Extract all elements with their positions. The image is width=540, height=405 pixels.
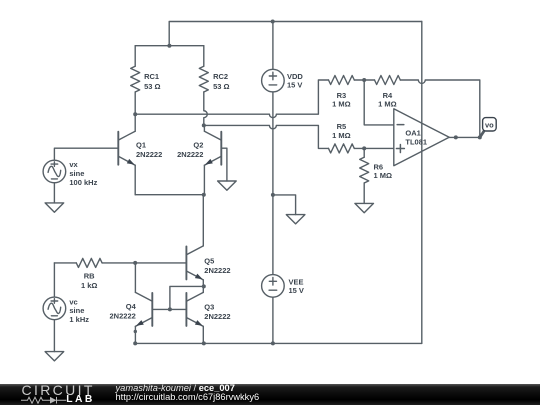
wire Q2-collector to R5 (node B) — [204, 125, 329, 148]
node output/feedback junction — [478, 135, 482, 139]
source VEE — [262, 275, 285, 298]
node top-rail/VDD junction — [271, 20, 275, 24]
svg-text:RC1: RC1 — [144, 72, 159, 81]
node Q3 emitter rail — [202, 341, 206, 345]
wire Q1-collector to R3 (node A) — [135, 80, 328, 118]
wire inverting input — [364, 80, 394, 125]
wire mid rail — [272, 92, 274, 275]
wire R5 to non-inverting input — [354, 147, 394, 149]
svg-text:1 MΩ: 1 MΩ — [374, 171, 393, 180]
ground below R6 — [355, 203, 374, 212]
svg-text:53 Ω: 53 Ω — [213, 82, 229, 91]
wire vx to ground — [53, 183, 55, 203]
node Q1 collector — [133, 112, 137, 116]
wire Q5 collector stub — [202, 195, 204, 246]
wire Q4 emitter stub — [134, 326, 136, 343]
svg-text:OA1: OA1 — [405, 128, 420, 137]
ground below vc — [45, 352, 64, 361]
wire Q4 collector stub — [134, 263, 136, 293]
svg-text:R5: R5 — [337, 122, 347, 131]
wire Q1 emitter stub — [134, 165, 136, 195]
transistor Q3 — [186, 292, 203, 326]
node RB/Q5 base/Q4 collector — [133, 261, 137, 265]
svg-text:2N2222: 2N2222 — [177, 150, 203, 159]
resistor RB — [54, 258, 135, 267]
svg-text:Q3: Q3 — [204, 303, 214, 312]
source vc — [43, 297, 66, 320]
node Q5 emitter/Q3 collector — [202, 284, 206, 288]
transistor Q5 — [186, 246, 203, 280]
transistor Q1 — [118, 131, 135, 165]
svg-text:100 kHz: 100 kHz — [69, 178, 97, 187]
node output pin — [454, 135, 458, 139]
footer author line — [116, 383, 235, 393]
svg-text:2N2222: 2N2222 — [204, 312, 230, 321]
node R3/R4 junction — [362, 78, 366, 82]
node VEE rail junction — [271, 341, 275, 345]
svg-text:15 V: 15 V — [289, 286, 304, 295]
wire Q2 collector stub — [203, 125, 205, 131]
svg-text:1 kΩ: 1 kΩ — [81, 281, 97, 290]
node Q2 collector — [202, 123, 206, 127]
wire R3 to node — [354, 79, 374, 81]
transistor Q4 — [135, 292, 152, 326]
wire vc to ground — [53, 320, 55, 352]
svg-text:Q4: Q4 — [126, 302, 137, 311]
wire Q2 base to ground — [221, 148, 227, 181]
flag vo — [480, 118, 496, 138]
CircuitLab logo CIRCUIT — [22, 382, 95, 398]
CircuitLab logo LAB — [66, 394, 94, 405]
logo circuit line with resistor and diode — [21, 396, 67, 404]
wire Q1 collector stub — [134, 114, 136, 131]
resistor R5 — [329, 144, 355, 153]
ground mid rail — [286, 215, 305, 224]
svg-text:Q2: Q2 — [193, 140, 203, 149]
resistor R6 — [360, 148, 369, 203]
node emitters/Q5 — [202, 193, 206, 197]
wire vc stub — [53, 263, 55, 297]
op-amp OA1 triangle — [394, 109, 449, 166]
wire Q4-Q3 base tie — [152, 308, 186, 310]
wire Q5 emitter stub — [202, 280, 204, 287]
wire VDD+ stub — [272, 22, 274, 70]
wire to mid ground — [273, 195, 296, 215]
svg-text:RC2: RC2 — [213, 72, 228, 81]
wire top rail VDD+ — [169, 22, 422, 46]
footer url line — [116, 392, 260, 402]
svg-text:53 Ω: 53 Ω — [144, 82, 160, 91]
transistor Q2 — [204, 131, 221, 165]
svg-text:R3: R3 — [337, 91, 347, 100]
wire mirror link — [170, 286, 204, 309]
resistor RC1 — [131, 46, 140, 115]
ground below vx — [45, 203, 64, 212]
svg-text:1 MΩ: 1 MΩ — [332, 100, 351, 109]
wire emitter tie — [135, 194, 204, 196]
wire Q3 emitter stub — [202, 326, 204, 343]
op-amp plus pin mark — [396, 145, 404, 153]
svg-text:VEE: VEE — [289, 277, 304, 286]
wire Q2 emitter stub — [203, 165, 205, 195]
resistor RC2 — [199, 46, 208, 126]
wire Q5 base — [135, 262, 186, 264]
svg-text:1 kHz: 1 kHz — [69, 315, 89, 324]
resistor R3 — [329, 76, 355, 85]
svg-text:2N2222: 2N2222 — [136, 150, 162, 159]
node RC top junction — [167, 44, 171, 48]
svg-text:sine: sine — [69, 169, 84, 178]
wire RC1-RC2 top — [135, 45, 204, 47]
footer bar — [0, 384, 540, 405]
op-amp minus pin mark — [397, 124, 404, 126]
wire op-amp output — [449, 136, 480, 138]
node mid-rail ground tap — [271, 193, 275, 197]
svg-text:vx: vx — [69, 160, 78, 169]
svg-text:2N2222: 2N2222 — [204, 266, 230, 275]
node Q4 emitter rail — [133, 341, 137, 345]
wire bottom rail VEE- — [135, 342, 422, 344]
svg-text:RB: RB — [84, 271, 95, 280]
op-amp supply rail V+/V- — [421, 22, 423, 344]
node base tie — [168, 307, 172, 311]
svg-text:Q5: Q5 — [204, 256, 214, 265]
svg-text:15 V: 15 V — [287, 81, 302, 90]
svg-text:vo: vo — [485, 120, 494, 129]
node Q4 emitter — [134, 330, 137, 333]
svg-text:VDD: VDD — [287, 72, 303, 81]
svg-text:R4: R4 — [383, 91, 393, 100]
svg-text:1 MΩ: 1 MΩ — [332, 131, 351, 140]
wire R4 to feedback drop — [400, 80, 480, 137]
node R5/R6 junction — [362, 146, 366, 150]
wire vx to Q1 base — [54, 148, 118, 160]
svg-text:TL081: TL081 — [405, 138, 427, 147]
svg-text:sine: sine — [69, 306, 84, 315]
source VDD — [262, 69, 285, 92]
svg-text:1 MΩ: 1 MΩ — [378, 100, 397, 109]
svg-text:2N2222: 2N2222 — [110, 311, 136, 320]
wire Q3 collector stub — [202, 286, 204, 292]
svg-text:Q1: Q1 — [136, 140, 146, 149]
source vx — [43, 160, 66, 183]
ground Q2 base — [218, 181, 237, 190]
wire VEE- stub — [272, 297, 274, 343]
svg-text:vc: vc — [69, 297, 77, 306]
resistor R4 — [375, 76, 401, 85]
